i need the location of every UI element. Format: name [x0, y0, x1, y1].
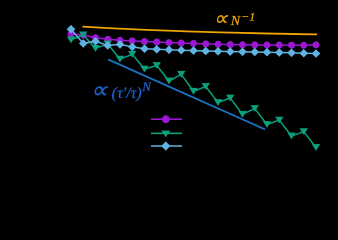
legend entry green [151, 131, 182, 138]
orange guide line (N^-1) [83, 27, 318, 35]
green triangle series [67, 32, 320, 151]
legend entry purple [151, 115, 182, 123]
purple circle series [68, 30, 320, 49]
legend entry cyan [151, 141, 182, 150]
cyan diamond series [67, 25, 321, 58]
blue guide line ((tau'/tau)^N) [108, 60, 265, 130]
